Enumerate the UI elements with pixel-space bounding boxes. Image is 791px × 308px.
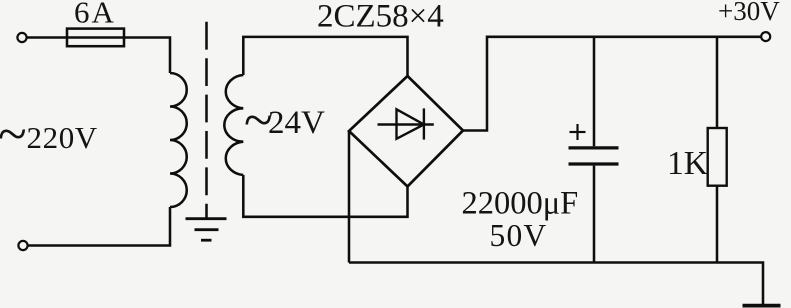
terminal input top-left bbox=[17, 33, 26, 42]
wire secondary top to bridge top vertex bbox=[243, 37, 407, 76]
bridge rectifier diamond bbox=[349, 76, 463, 187]
svg-text:~: ~ bbox=[0, 106, 27, 164]
svg-text:2CZ58×4: 2CZ58×4 bbox=[317, 0, 444, 35]
svg-text:+30V: +30V bbox=[718, 0, 780, 26]
terminal output +30V bbox=[761, 32, 770, 41]
svg-text:22000μF: 22000μF bbox=[462, 186, 579, 222]
svg-text:50V: 50V bbox=[490, 218, 548, 253]
resistor R1 body bbox=[708, 128, 727, 186]
wire bridge minus output to bottom rail bbox=[348, 131, 351, 263]
fuse FU 6A bbox=[67, 29, 124, 47]
terminal input bottom-left bbox=[18, 241, 27, 250]
transformer T1 secondary winding bbox=[224, 75, 243, 175]
bottom rail wire bbox=[349, 263, 763, 305]
capacitor C1 leads bbox=[593, 37, 596, 147]
transformer T1 primary winding bbox=[170, 73, 187, 207]
capacitor C1 plates bbox=[569, 148, 619, 164]
svg-text:24V: 24V bbox=[268, 105, 325, 141]
wire bridge plus output to +30V rail bbox=[463, 37, 761, 131]
core ground bbox=[186, 219, 227, 241]
transformer core dashed line bbox=[205, 22, 208, 218]
capacitor plus polarity mark bbox=[570, 124, 586, 140]
ground symbol bottom-right bbox=[743, 304, 781, 308]
wire top-left to fuse and transformer primary bbox=[27, 38, 170, 74]
resistor R1 leads bbox=[716, 37, 719, 128]
svg-text:220V: 220V bbox=[27, 120, 98, 155]
svg-text:6A: 6A bbox=[74, 0, 116, 30]
wire primary bottom to bottom-left terminal bbox=[28, 207, 170, 246]
svg-text:1K: 1K bbox=[667, 145, 708, 182]
wire secondary bottom to bridge bottom vertex bbox=[243, 175, 407, 217]
bridge diode symbol bbox=[378, 108, 434, 139]
